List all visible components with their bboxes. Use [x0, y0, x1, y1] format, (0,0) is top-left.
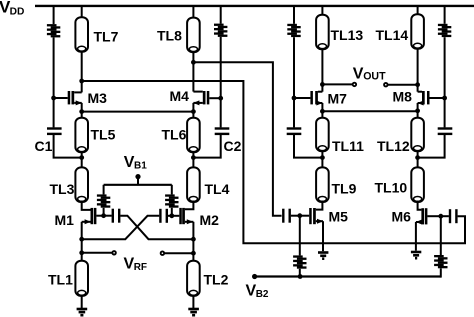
svg-text:M1: M1 [55, 212, 75, 228]
svg-text:TL12: TL12 [377, 138, 410, 154]
node M8 gate [442, 96, 447, 101]
svg-text:B1: B1 [134, 161, 147, 172]
VB1 terminal [135, 174, 140, 179]
ground under TL1 [77, 308, 88, 311]
wire M6 cap left [441, 215, 449, 217]
wire M3 source to TL5 [81, 103, 83, 118]
transmission line TL2 [187, 261, 200, 296]
VDD supply rail [35, 5, 474, 7]
svg-text:TL5: TL5 [91, 127, 116, 143]
ground under M5 [318, 251, 328, 254]
svg-text:M6: M6 [392, 209, 412, 225]
VOUT left stub [322, 83, 352, 85]
wire choke to VB2 rail [299, 269, 301, 277]
transistor M8 [427, 91, 430, 104]
choke coil M6 gate bias [434, 255, 444, 257]
transistor M6 [425, 208, 428, 224]
transmission line TL8 [187, 18, 200, 53]
transmission line TL7 [75, 17, 88, 52]
wire M2 gate to cap [168, 215, 172, 217]
wire VDD to choke L4 [444, 6, 446, 24]
choke coil above C1 column [47, 24, 57, 26]
wire choke to M8 gate node [444, 37, 446, 98]
wire choke to M3 gate node [53, 38, 55, 99]
node TL8 output [191, 60, 196, 65]
wire C2 to TL6/TL4 junction [193, 135, 220, 158]
wire M8 source to TL12 [417, 103, 419, 118]
choke coil M1 gate bias [97, 194, 107, 196]
svg-text:TL2: TL2 [204, 272, 229, 288]
choke coil above C2 column [214, 24, 224, 26]
transmission line TL6 [187, 118, 200, 153]
node VRF right tee [191, 251, 196, 256]
wire M3 source to M4 source [82, 111, 194, 113]
svg-text:TL8: TL8 [157, 28, 182, 44]
capacitor C1 [47, 127, 62, 129]
capacitor C2 [215, 127, 230, 129]
wire M3 gate node to C1 [53, 98, 55, 127]
transmission line TL3 [75, 167, 88, 202]
wire M5 source to ground [322, 221, 324, 251]
transistor M7 [310, 91, 313, 104]
M4 drain stub [193, 91, 202, 93]
VB1 right drop [171, 185, 173, 195]
wire TL7 to M3 drain [81, 52, 83, 93]
VB2 rail [255, 275, 441, 277]
node M8 source [415, 108, 420, 113]
wire TL10 to M6 drain [418, 202, 422, 210]
wire TL8 to M4 drain [192, 52, 194, 91]
transistor M2 [179, 208, 182, 224]
M4 source arrow [193, 100, 199, 105]
wire M7 source to M8 source [322, 110, 417, 112]
node M3 drain [79, 79, 84, 84]
M3 gate wire [54, 97, 68, 99]
VRF left stub [82, 252, 113, 254]
svg-text:C1: C1 [35, 138, 53, 154]
svg-text:M2: M2 [200, 212, 220, 228]
choke coil M2 gate bias [165, 194, 175, 196]
node VOUT left branch [320, 82, 325, 87]
transistor M1 [94, 208, 97, 224]
node TL11/TL9 junction [320, 155, 325, 160]
M8 gate wire [430, 97, 445, 99]
node VRF left tee [79, 250, 84, 255]
svg-text:TL11: TL11 [332, 138, 364, 154]
M5 gate wire [300, 215, 309, 217]
wire choke to M7 gate node [293, 37, 295, 98]
VOUT left terminal [353, 83, 357, 87]
M2 source arrow [187, 219, 193, 224]
wire VDD to TL8 [192, 6, 194, 18]
node M1 source / tank [79, 237, 84, 242]
svg-text:TL3: TL3 [50, 181, 75, 197]
wire VDD to choke L1 [53, 6, 55, 24]
node TL5/TL3 junction [79, 155, 84, 160]
wire TL14 to M8 drain [417, 49, 419, 92]
wire M3 drain to buffer (line B) [82, 81, 465, 243]
node TL6/TL4 junction [191, 155, 196, 160]
transmission line TL4 [187, 167, 200, 202]
VRF left terminal [112, 251, 116, 255]
svg-text:TL13: TL13 [331, 27, 364, 43]
VOUT right stub [388, 84, 418, 86]
wire M8 gate node to cap [444, 98, 446, 127]
svg-text:B2: B2 [256, 289, 269, 300]
node M7 source [320, 109, 325, 114]
wire VDD to TL7 [81, 6, 83, 17]
wire TL12 to TL10 [417, 151, 419, 167]
ground under TL2 [188, 308, 199, 311]
M2 gate wire [172, 215, 180, 217]
transmission line TL1 [75, 261, 88, 296]
M1 source arrow [85, 219, 91, 224]
M4 gate wire [209, 97, 220, 99]
wire TL2 to ground [192, 296, 194, 308]
wire VDD to choke L2 [220, 6, 222, 24]
node M6 gate [438, 214, 443, 219]
svg-text:M5: M5 [329, 209, 349, 225]
transistor M3 [68, 91, 71, 104]
svg-text:TL1: TL1 [48, 272, 73, 288]
svg-text:M8: M8 [393, 89, 413, 105]
cross-couple wire M1 gate to M2 source [120, 216, 193, 240]
svg-text:TL7: TL7 [94, 29, 119, 45]
wire choke to VB2 rail end [440, 268, 442, 277]
wire M7 source to TL11 [321, 103, 323, 118]
wire TL4 to M2 drain [185, 202, 194, 209]
node TL12/TL10 junction [415, 155, 420, 160]
wire M1 source down [81, 222, 83, 261]
wire M7 gate node to cap [293, 98, 295, 127]
wire M4 source to TL6 [192, 103, 194, 118]
M8 source arrow [417, 101, 423, 106]
svg-text:C2: C2 [224, 138, 242, 154]
capacitor at M8 gate column [438, 127, 453, 129]
transistor M4 [207, 91, 210, 104]
node VB2 junction [298, 274, 303, 279]
wire TL1 to ground [81, 296, 83, 308]
wire TL3 to M1 drain [82, 202, 91, 210]
wire M5 gate to choke [299, 216, 301, 256]
wire VDD to choke L3 [293, 6, 295, 24]
wire TL6 to TL4 [192, 152, 194, 167]
M6 source arrow [416, 220, 422, 225]
svg-text:M3: M3 [88, 90, 108, 106]
wire M2 source down [192, 222, 194, 261]
node M2 source / tank [191, 237, 196, 242]
wire VDD to TL13 [321, 6, 323, 15]
wire C1 to TL5/TL3 junction [54, 135, 82, 158]
wire M1 gate to cap [104, 215, 112, 217]
svg-text:DD: DD [10, 7, 25, 18]
svg-text:V: V [353, 66, 364, 83]
M1 gate coupling capacitor [112, 209, 114, 223]
node M3 source [79, 109, 84, 114]
svg-text:TL6: TL6 [162, 127, 187, 143]
svg-text:TL10: TL10 [375, 180, 408, 196]
transistor M5 [309, 208, 312, 224]
VRF right stub [164, 252, 193, 254]
cross-couple wire M2 gate to M1 source [82, 216, 160, 239]
M7 gate wire [294, 97, 310, 99]
svg-text:M4: M4 [170, 88, 190, 104]
transmission line TL12 [411, 118, 424, 152]
node VOUT right branch [415, 82, 420, 87]
svg-text:M7: M7 [328, 91, 348, 107]
svg-text:TL4: TL4 [205, 181, 230, 197]
capacitor at M7 gate column [287, 127, 302, 129]
transmission line TL9 [316, 167, 329, 202]
node M4 gate [218, 96, 223, 101]
VB1 bus [104, 184, 172, 186]
wire M6 gate to choke [440, 216, 442, 255]
M5 gate coupling capacitor [282, 209, 284, 223]
VRF right terminal [161, 251, 165, 255]
VB1 stub [137, 177, 139, 185]
wire M6 source to ground [415, 222, 417, 251]
svg-text:OUT: OUT [363, 71, 386, 83]
transmission line TL5 [75, 118, 88, 153]
VOUT right terminal [384, 83, 388, 87]
svg-text:RF: RF [134, 262, 147, 273]
wire choke to M2 gate [171, 208, 173, 216]
wire VDD to TL14 [417, 6, 419, 14]
node M1 gate [101, 213, 106, 218]
node M4 source [191, 109, 196, 114]
choke coil M5 gate bias [293, 255, 303, 257]
VB2 terminal [252, 274, 257, 279]
wire TL11 to TL9 [321, 151, 323, 167]
wire M5 cap to gate node [291, 215, 300, 217]
transmission line TL11 [316, 118, 329, 152]
M5 source arrow [317, 219, 323, 224]
choke coil above M8 gate column [438, 24, 448, 26]
M2 gate coupling capacitor [159, 209, 161, 223]
svg-text:TL14: TL14 [376, 27, 409, 43]
wire TL5 to TL3 [81, 152, 83, 167]
transmission line TL14 [411, 14, 424, 49]
transmission line TL10 [411, 167, 424, 202]
wire choke to M1 gate [103, 208, 105, 216]
svg-text:TL9: TL9 [332, 181, 357, 197]
node M7 gate [292, 96, 297, 101]
wire choke to M4 gate node [220, 37, 222, 98]
M8 drain stub [418, 91, 422, 93]
ground under M6 [411, 251, 421, 254]
wire M4 gate node to C2 [220, 98, 222, 127]
node M5 gate [297, 213, 302, 218]
wire cap to TL11/TL9 junction [294, 135, 322, 158]
wire TL8 node to buffer (line A) [193, 62, 281, 215]
wire TL13 to M7 drain [321, 49, 323, 91]
M6 gate wire [427, 215, 440, 217]
M7 source arrow [316, 101, 322, 106]
transmission line TL13 [316, 15, 329, 50]
choke coil above M7 gate column [287, 24, 297, 26]
node M2 gate [169, 213, 174, 218]
M3 source arrow [76, 100, 82, 105]
M6 gate coupling capacitor [449, 209, 451, 223]
wire cap to TL12/TL10 junction [418, 135, 445, 158]
wire TL9 to M5 drain [316, 202, 323, 210]
node M3 gate [51, 96, 56, 101]
VB1 left drop [103, 185, 105, 195]
M1 gate wire [96, 215, 103, 217]
